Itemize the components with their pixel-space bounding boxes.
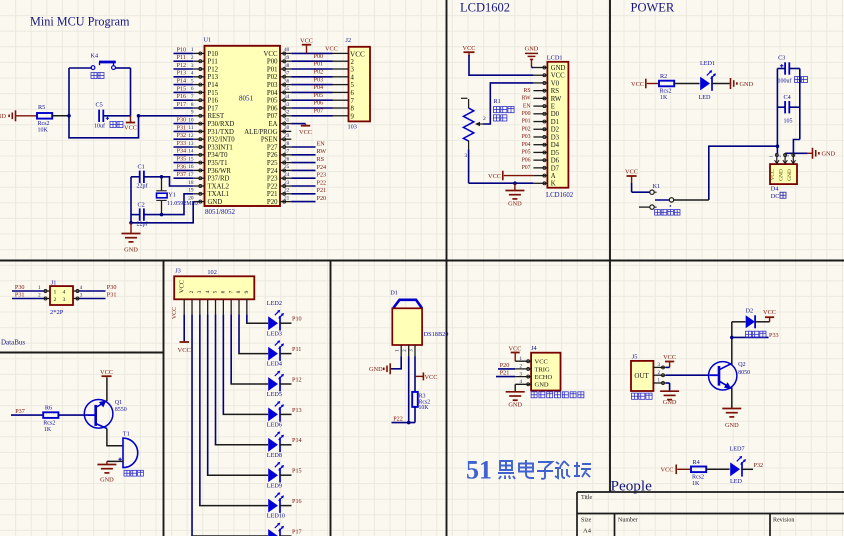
J3 pin 2 number xyxy=(189,290,195,293)
svg-text:VCC: VCC xyxy=(264,51,278,58)
J5 pin 3 xyxy=(653,363,665,369)
net label VCC (J3 rotated) xyxy=(172,307,178,319)
svg-text:P21: P21 xyxy=(267,191,278,198)
svg-text:P32: P32 xyxy=(177,132,187,139)
title block Number label xyxy=(618,518,638,524)
wire xtal A to TXAL2 xyxy=(162,177,194,186)
J3 pin 3 stub xyxy=(199,299,201,314)
svg-text:LED8: LED8 xyxy=(267,452,282,459)
svg-text:4: 4 xyxy=(191,71,194,77)
svg-text:GND: GND xyxy=(535,382,549,389)
J2 pin 3 xyxy=(333,67,355,74)
svg-text:RW: RW xyxy=(522,96,532,102)
U1 pin 20 (GND) xyxy=(188,195,222,206)
wire D2 to VCC xyxy=(755,321,770,323)
wire EA to VCC xyxy=(291,123,305,125)
LCD1 pin E xyxy=(533,104,554,111)
J4 pin 1 xyxy=(515,357,548,366)
wire net P30 (J1 right) xyxy=(80,290,106,292)
sensor D1 DS18B20 body xyxy=(392,300,422,345)
net label P05 (LCD) xyxy=(522,150,531,156)
net label P12 xyxy=(177,62,187,69)
power VCC (J3) xyxy=(178,342,191,354)
svg-text:P00: P00 xyxy=(267,59,278,66)
wire K1 out xyxy=(674,199,709,201)
junction P22 row xyxy=(407,421,411,425)
wire R4 to LED7 xyxy=(707,468,730,470)
J4 designator xyxy=(531,345,537,352)
wire C5 to VCC xyxy=(104,115,131,117)
svg-text:P10: P10 xyxy=(208,51,219,58)
svg-text:R6: R6 xyxy=(45,404,52,411)
svg-text:P03: P03 xyxy=(267,82,278,89)
J2 pin 4 xyxy=(333,74,355,81)
svg-text:P03: P03 xyxy=(314,76,324,83)
D4 annotation DC xyxy=(771,192,786,200)
svg-text:K: K xyxy=(551,181,556,188)
svg-text:VCC: VCC xyxy=(179,280,186,293)
diode D2 xyxy=(746,307,756,328)
U1 pin 27 (P26) xyxy=(267,149,291,160)
svg-text:8051: 8051 xyxy=(239,94,254,102)
net label P20 (J4) xyxy=(500,362,510,369)
svg-text:DC: DC xyxy=(771,193,780,200)
svg-text:VCC: VCC xyxy=(350,51,365,59)
wire J3 pin8 to LED3 xyxy=(238,314,268,353)
svg-text:11: 11 xyxy=(188,125,193,131)
wire reset loop left xyxy=(69,68,92,116)
wire R6 to Q1 xyxy=(59,414,88,416)
power VCC (D1) xyxy=(415,372,437,381)
U1 pin 22 (P21) xyxy=(267,188,291,199)
svg-text:1K: 1K xyxy=(660,95,668,101)
wire net RS (U1 right) xyxy=(291,162,315,164)
net label P06 xyxy=(314,100,324,107)
net label P21 (U1 right) xyxy=(317,187,327,194)
wire J3 pin4 to LED8 xyxy=(207,314,268,475)
wire J3 pin7 to LED4 xyxy=(230,314,268,384)
svg-text:31: 31 xyxy=(284,117,290,123)
svg-text:P01: P01 xyxy=(314,61,324,68)
U1 pin 5 (P14) xyxy=(191,78,219,89)
wire J3 pin5 to LED6 xyxy=(215,314,268,444)
wire J3 pin9 to LED2 xyxy=(246,314,268,323)
net label P16 xyxy=(177,93,187,100)
capacitor C1 xyxy=(137,163,148,189)
svg-text:VCC: VCC xyxy=(770,169,776,180)
svg-text:J5: J5 xyxy=(632,353,638,360)
wire R5 to node xyxy=(53,115,70,117)
J3 pin 7 stub xyxy=(230,299,232,314)
U1 pin 34 (P05) xyxy=(267,94,291,105)
net label P04 xyxy=(314,84,324,91)
svg-text:7: 7 xyxy=(191,94,194,100)
svg-text:6: 6 xyxy=(351,90,355,97)
svg-text:11.0592MHz: 11.0592MHz xyxy=(167,201,199,207)
svg-text:P26: P26 xyxy=(267,152,278,159)
junction P33 xyxy=(730,336,734,340)
diode LED10 xyxy=(267,513,285,536)
net label P32 xyxy=(177,132,187,139)
net label P04 (LCD) xyxy=(522,142,531,148)
power VCC (D2) xyxy=(763,309,776,322)
svg-text:P30: P30 xyxy=(177,117,187,124)
svg-text:GND: GND xyxy=(740,81,754,88)
svg-text:R4: R4 xyxy=(693,459,700,466)
svg-text:9: 9 xyxy=(244,290,250,293)
J1 pin 1 xyxy=(38,286,50,292)
svg-text:4: 4 xyxy=(63,289,66,295)
LCD1 pin D7 xyxy=(533,165,559,172)
wire cap to D4 pin3 xyxy=(793,140,799,154)
J1 pin 3 xyxy=(73,294,83,300)
wire reset to REST pin xyxy=(139,115,194,117)
R1 designator xyxy=(494,98,501,105)
svg-text:GND: GND xyxy=(0,113,6,120)
svg-text:P25: P25 xyxy=(267,160,278,167)
wire GND to R5 xyxy=(16,115,38,117)
ground (J4) xyxy=(506,392,525,409)
wire LED3 to net xyxy=(280,353,292,355)
net label P36 xyxy=(177,163,187,170)
section divider vertical x163 xyxy=(163,261,165,536)
svg-text:P20: P20 xyxy=(317,195,327,202)
net label P12 (LED) xyxy=(292,376,302,383)
svg-text:P00: P00 xyxy=(314,53,324,60)
J3 pin 6 number xyxy=(221,290,227,293)
svg-text:P04: P04 xyxy=(522,142,531,148)
svg-text:P10: P10 xyxy=(177,46,187,53)
svg-text:LCD1602: LCD1602 xyxy=(546,192,574,199)
svg-text:13: 13 xyxy=(188,141,194,147)
U1 pin 37 (P02) xyxy=(267,71,291,82)
svg-text:VCC: VCC xyxy=(661,467,674,474)
J3 pin 9 stub xyxy=(246,299,248,314)
wire net P37 to U1 xyxy=(174,177,194,179)
net label P32 xyxy=(754,462,764,469)
svg-text:VCC: VCC xyxy=(100,369,113,376)
svg-text:RW: RW xyxy=(551,96,562,103)
power VCC (Q1) xyxy=(100,369,113,376)
wire net P34 to U1 xyxy=(174,154,194,156)
svg-text:T1: T1 xyxy=(123,430,130,437)
svg-text:P35: P35 xyxy=(177,156,187,163)
wire net P36 to U1 xyxy=(174,169,194,171)
net label P20 (U1 right) xyxy=(317,195,327,202)
wire LED9 to net xyxy=(280,505,292,507)
U1 pin 6 (P15) xyxy=(191,86,219,97)
J3 pin 1 stub xyxy=(183,299,185,314)
svg-text:Q1: Q1 xyxy=(115,399,123,406)
svg-text:10: 10 xyxy=(188,117,194,123)
J1 part type 2*2P xyxy=(50,309,64,316)
svg-text:LED2: LED2 xyxy=(267,300,282,307)
svg-text:RW: RW xyxy=(317,148,327,155)
svg-text:VCC: VCC xyxy=(663,354,676,361)
net label RS (LCD) xyxy=(524,88,531,94)
wire net P14 to U1 xyxy=(174,84,194,86)
svg-text:VCC: VCC xyxy=(763,309,776,316)
wire VCC row to J2 pin1 xyxy=(291,52,332,54)
J2 pin 5 xyxy=(333,82,355,89)
svg-text:J1: J1 xyxy=(51,279,57,286)
svg-text:P30/RXD: P30/RXD xyxy=(208,121,235,128)
svg-text:29: 29 xyxy=(284,133,290,139)
J4 annotation xyxy=(531,392,584,398)
capacitor C5 xyxy=(94,101,109,129)
LCD1 pin D6 xyxy=(533,158,559,165)
wire net P01 bus xyxy=(291,68,332,70)
svg-text:R1: R1 xyxy=(494,98,501,105)
wire buzzer to GND xyxy=(107,461,123,464)
svg-text:VCC: VCC xyxy=(488,173,501,180)
J3 pin 4 number xyxy=(205,290,211,293)
wire VCC to K1 xyxy=(632,183,650,192)
U1 pin 1 (P10) xyxy=(191,47,219,58)
svg-text:J2: J2 xyxy=(346,37,352,44)
wire net P00 bus xyxy=(291,60,332,62)
svg-text:Revision: Revision xyxy=(773,518,794,524)
title block Revision label xyxy=(773,518,794,524)
svg-text:P31: P31 xyxy=(107,292,117,299)
wire net P17 to U1 xyxy=(174,107,194,109)
U1 pin 8 (P17) xyxy=(191,102,219,113)
svg-text:P13: P13 xyxy=(208,74,219,81)
svg-text:TXAL1: TXAL1 xyxy=(208,191,230,198)
port GND left (reset) xyxy=(0,110,16,121)
J1 pin 4 xyxy=(73,286,83,292)
svg-text:DataBus: DataBus xyxy=(1,339,25,347)
svg-text:RS: RS xyxy=(317,156,325,163)
net label P16 (LED) xyxy=(292,498,302,505)
net label VCC (J2) xyxy=(325,45,338,52)
title POWER xyxy=(631,1,675,15)
svg-text:3: 3 xyxy=(465,153,468,159)
svg-text:103: 103 xyxy=(348,124,357,131)
title block A4 label xyxy=(583,528,592,535)
svg-text:Q2: Q2 xyxy=(738,361,746,368)
wire GND to LCD pin1 xyxy=(532,67,534,69)
wire net P31 (J1 left) xyxy=(12,298,44,300)
wire J3 pin6 to LED5 xyxy=(223,314,268,414)
svg-text:D0: D0 xyxy=(551,111,560,118)
wire R3 to P22 row xyxy=(392,407,416,423)
svg-text:K4: K4 xyxy=(91,53,99,60)
U1 pin 12 (P32/INT0) xyxy=(188,133,235,144)
U1 pin 36 (P03) xyxy=(267,78,291,89)
svg-text:A: A xyxy=(551,173,556,180)
svg-text:PSEN: PSEN xyxy=(261,137,278,144)
J3 pin 8 stub xyxy=(238,299,240,314)
net label P05 xyxy=(314,92,324,99)
connector J2 body xyxy=(349,47,371,122)
svg-text:10K: 10K xyxy=(419,405,430,411)
DataBus section divider xyxy=(0,352,164,354)
svg-text:P33: P33 xyxy=(769,332,779,339)
section divider vertical x610 xyxy=(609,0,611,492)
wire LED7 to net xyxy=(742,468,753,470)
LCD1 pin D2 xyxy=(533,127,559,134)
svg-text:12: 12 xyxy=(188,133,194,139)
svg-text:P21: P21 xyxy=(500,370,510,377)
svg-text:37: 37 xyxy=(284,71,290,77)
svg-text:P14: P14 xyxy=(177,78,187,85)
svg-text:VCC: VCC xyxy=(124,125,137,132)
diode LED1 xyxy=(699,60,717,101)
U1 pin 21 (P20) xyxy=(267,195,291,206)
net label P37 (buzzer) xyxy=(15,408,25,415)
svg-text:P16: P16 xyxy=(292,498,302,505)
svg-text:VCC: VCC xyxy=(299,129,312,136)
net label RW (LCD) xyxy=(522,96,532,102)
U1 pin 29 (PSEN) xyxy=(261,133,291,144)
svg-text:GND: GND xyxy=(508,201,522,208)
svg-text:Mini MCU Program: Mini MCU Program xyxy=(30,15,130,29)
svg-text:P31: P31 xyxy=(15,292,25,299)
svg-text:GND: GND xyxy=(779,169,785,181)
wire J3 pin2 to LED10 xyxy=(191,314,268,536)
net label P14 xyxy=(177,78,187,85)
wire net P20 (U1 right) xyxy=(291,201,315,203)
power VCC (LED1 row) xyxy=(631,79,659,89)
svg-text:VCC: VCC xyxy=(631,81,644,88)
svg-text:100uf: 100uf xyxy=(778,78,792,85)
net label P35 xyxy=(177,156,187,163)
net label P01 (LCD) xyxy=(522,119,531,125)
net label P10 (LED) xyxy=(292,316,302,323)
svg-text:U1: U1 xyxy=(204,37,212,44)
svg-text:P22: P22 xyxy=(393,416,403,423)
svg-text:Rcs2: Rcs2 xyxy=(38,121,50,127)
svg-text:4: 4 xyxy=(351,74,355,81)
J3 pin 5 stub xyxy=(215,299,217,314)
net label P31 xyxy=(177,124,187,131)
svg-text:Number: Number xyxy=(618,518,638,524)
svg-text:P20: P20 xyxy=(500,362,510,369)
svg-text:D2: D2 xyxy=(551,127,560,134)
svg-text:VCC: VCC xyxy=(425,374,438,381)
wire Q1 collector to buzzer xyxy=(107,429,123,446)
svg-text:10K: 10K xyxy=(38,128,49,134)
port GND (D4) xyxy=(813,148,836,159)
svg-text:VCC: VCC xyxy=(172,307,178,319)
svg-text:LED: LED xyxy=(699,94,712,101)
junction K row gnd xyxy=(513,181,517,185)
net label P00 xyxy=(314,53,324,60)
svg-text:VCC: VCC xyxy=(300,38,313,45)
J3 designator xyxy=(175,268,181,275)
J4 pin 2 xyxy=(515,365,550,374)
wire net P07 bus xyxy=(291,115,332,117)
svg-text:D4: D4 xyxy=(551,142,560,149)
svg-text:P05: P05 xyxy=(522,150,531,156)
wire net P33 xyxy=(732,336,769,338)
ground (LCD bottom) xyxy=(505,183,524,207)
power VCC (J4) xyxy=(509,346,522,362)
svg-text:P31: P31 xyxy=(177,124,187,131)
svg-text:3: 3 xyxy=(63,297,66,303)
svg-text:Rcs2: Rcs2 xyxy=(43,420,55,426)
svg-text:9: 9 xyxy=(351,113,355,120)
diode LED6 xyxy=(267,422,284,453)
svg-text:2: 2 xyxy=(54,297,57,303)
svg-text:P30: P30 xyxy=(15,284,25,291)
svg-text:2: 2 xyxy=(189,290,195,293)
J3 pin 3 number xyxy=(197,290,203,293)
net label P33 xyxy=(177,140,187,147)
svg-text:P10: P10 xyxy=(292,316,302,323)
svg-text:38: 38 xyxy=(284,63,290,69)
D1 designator xyxy=(390,290,398,297)
net label P13 (LED) xyxy=(292,407,302,414)
svg-text:P17: P17 xyxy=(292,528,302,535)
svg-text:33: 33 xyxy=(284,102,290,108)
svg-text:21: 21 xyxy=(284,195,290,201)
wire net P13 to U1 xyxy=(174,76,194,78)
wire J5 pin1 to GND xyxy=(666,383,670,391)
wire net P12 to U1 xyxy=(174,68,194,70)
wire U1 GND down xyxy=(131,202,193,223)
svg-text:D3: D3 xyxy=(551,134,560,141)
U1 pin 3 (P12) xyxy=(191,63,219,74)
svg-text:P03: P03 xyxy=(522,134,531,140)
D1 part type xyxy=(424,331,449,338)
crystal Y1 xyxy=(156,177,199,215)
title LCD1602 xyxy=(460,1,510,15)
net label P01 xyxy=(314,61,324,68)
wire net P06 bus xyxy=(291,107,332,109)
net label P03 (LCD) xyxy=(522,134,531,140)
wire net P31 to U1 xyxy=(174,130,194,132)
U1 pin 19 (TXAL1) xyxy=(188,188,229,199)
D1 pin 2 xyxy=(403,345,409,356)
svg-text:RS: RS xyxy=(524,88,531,94)
svg-text:9: 9 xyxy=(191,110,194,116)
net label P11 xyxy=(177,54,186,61)
resistor R6 xyxy=(43,404,58,433)
net label P22 xyxy=(393,416,403,423)
power VCC (LED7) xyxy=(661,465,691,475)
svg-text:P36/WR: P36/WR xyxy=(208,168,232,175)
svg-text:8: 8 xyxy=(351,106,355,113)
wire Q1 emitter to VCC xyxy=(106,377,108,401)
wire net P23 (U1 right) xyxy=(291,177,315,179)
U1 pin 40 (VCC) xyxy=(264,47,292,58)
svg-text:A4: A4 xyxy=(583,528,592,535)
svg-text:C5: C5 xyxy=(96,101,103,108)
svg-text:P14: P14 xyxy=(292,437,302,444)
wire J3 pin3 to LED9 xyxy=(199,314,268,505)
svg-text:P07: P07 xyxy=(267,113,278,120)
svg-text:REST: REST xyxy=(208,113,225,120)
svg-text:ECHO: ECHO xyxy=(535,374,553,381)
power VCC (LCD top) xyxy=(463,45,476,56)
svg-text:D1: D1 xyxy=(551,119,559,126)
label People xyxy=(611,478,653,495)
LCD1 pin D1 xyxy=(533,119,559,126)
LCD1 pin A xyxy=(533,173,555,180)
junction reset node xyxy=(67,114,71,118)
svg-text:TRIG: TRIG xyxy=(535,366,550,373)
svg-text:P06: P06 xyxy=(522,157,531,163)
svg-text:ALE/PROG: ALE/PROG xyxy=(244,129,277,136)
section divider horizontal xyxy=(0,260,844,262)
wire net P30 to U1 xyxy=(174,123,194,125)
svg-text:8050: 8050 xyxy=(738,370,750,376)
junction reset-REST xyxy=(137,114,141,118)
svg-text:P05: P05 xyxy=(314,92,324,99)
wire V0 to wiper xyxy=(483,83,533,124)
